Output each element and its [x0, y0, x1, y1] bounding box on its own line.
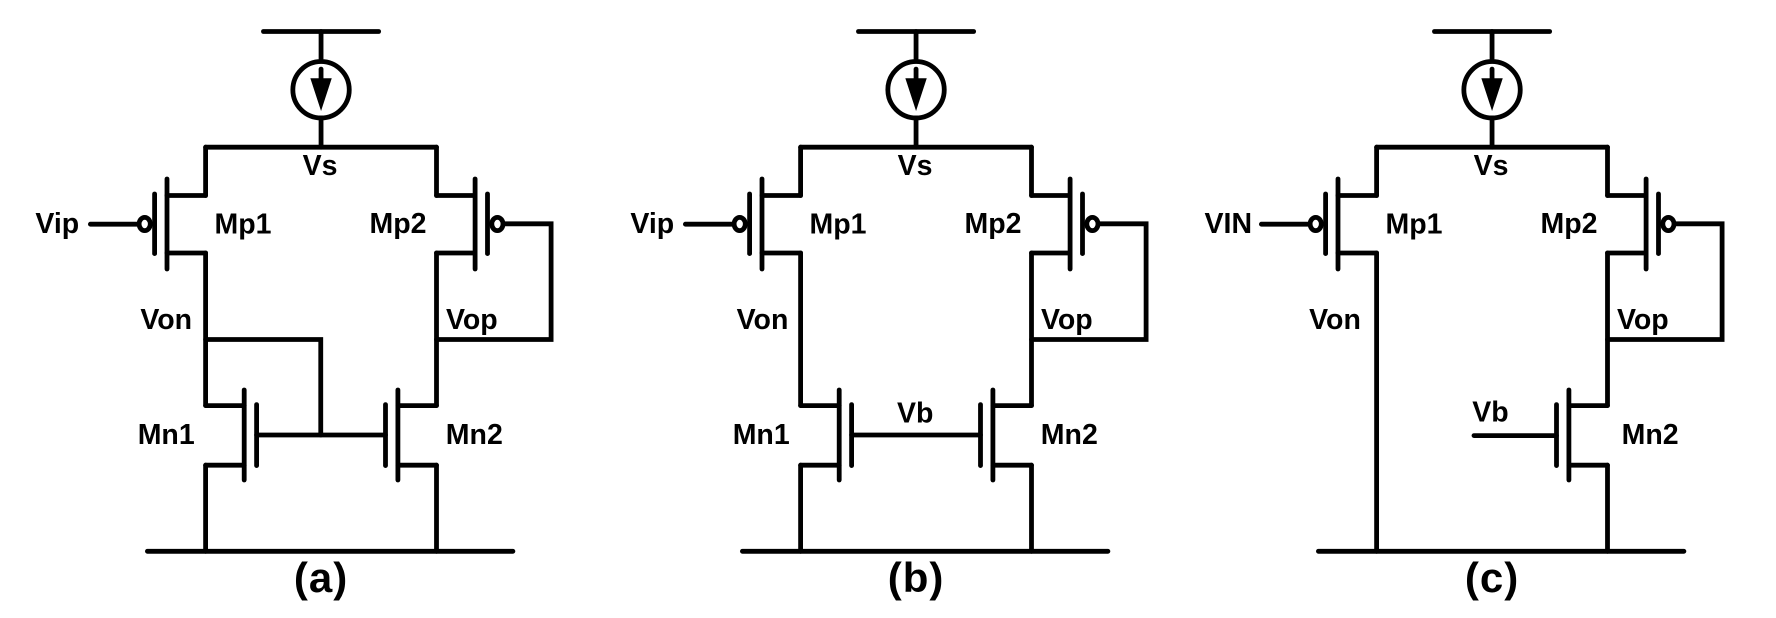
svg-text:Mp1: Mp1	[215, 208, 272, 240]
supply rail (top bar) circuit b	[858, 29, 973, 34]
wire bias input Vb to Mn2 gate	[1474, 433, 1557, 438]
wire input VIN to Mp1 gate bubble	[1261, 222, 1309, 227]
svg-text:Mp1: Mp1	[810, 208, 867, 240]
ground rail circuit b	[742, 549, 1108, 554]
current source Ib circuit a	[293, 61, 349, 117]
wire input Vip to Mp1 gate bubble	[90, 222, 138, 227]
current source Ib circuit b	[888, 61, 944, 117]
svg-text:Mn1: Mn1	[138, 419, 195, 451]
svg-text:Mn2: Mn2	[1622, 419, 1679, 451]
svg-text:Vip: Vip	[630, 208, 674, 240]
pmos Mp2	[1032, 179, 1099, 269]
svg-text:(a): (a)	[294, 554, 348, 601]
svg-text:Vop: Vop	[446, 304, 498, 336]
svg-text:Mp2: Mp2	[965, 208, 1022, 240]
wire Vs rail down to Mp2 source	[1605, 147, 1610, 195]
svg-text:Mn2: Mn2	[446, 419, 503, 451]
wire Mn2 source to ground rail	[1605, 465, 1610, 551]
svg-text:(b): (b)	[888, 554, 945, 601]
svg-text:Vs: Vs	[898, 150, 933, 182]
svg-text:Vs: Vs	[303, 150, 338, 182]
pmos Mp1	[734, 179, 800, 269]
wire Vs rail down to Mp2 source	[1029, 147, 1034, 195]
wire Von: Mp1 drain down to Mn1 drain	[798, 253, 803, 406]
wire Vs rail down to Mp1 source	[1374, 147, 1379, 195]
svg-text:(c): (c)	[1465, 554, 1519, 601]
wire current source to Vs node	[1490, 120, 1495, 148]
ground rail circuit c	[1318, 549, 1684, 554]
wire Von node tap to nmos gate bus	[206, 340, 321, 436]
node Vs (source rail)	[801, 145, 1032, 150]
nmos Mn1	[206, 390, 257, 480]
wire supply bar to current source	[319, 32, 324, 59]
svg-text:VIN: VIN	[1205, 208, 1253, 240]
svg-text:Von: Von	[737, 304, 789, 336]
wire Mn1 source to ground rail	[203, 465, 208, 551]
wire supply bar to current source	[1490, 32, 1495, 59]
wire Vs rail down to Mp1 source	[203, 147, 208, 195]
svg-text:Mp2: Mp2	[1541, 208, 1598, 240]
svg-text:Mp2: Mp2	[370, 208, 427, 240]
node Vs (source rail)	[1377, 145, 1608, 150]
wire Mp2 gate feedback to Vop	[1032, 224, 1147, 340]
svg-text:Vop: Vop	[1041, 304, 1093, 336]
wire supply bar to current source	[914, 32, 919, 59]
supply rail (top bar) circuit c	[1434, 29, 1549, 34]
wire Von: Mp1 drain down to ground rail	[1374, 253, 1379, 551]
wire Mp2 gate feedback to Vop	[437, 224, 552, 340]
nmos Mn2	[386, 390, 437, 480]
supply rail (top bar) circuit a	[263, 29, 378, 34]
pmos Mp1	[1310, 179, 1377, 269]
pmos Mp1	[139, 179, 206, 269]
node Vs (source rail)	[206, 145, 437, 150]
svg-text:Mn2: Mn2	[1041, 419, 1098, 451]
wire Vs rail down to Mp1 source	[798, 147, 803, 195]
nmos Mn2	[1557, 390, 1608, 480]
wire Mn1 source to ground rail	[798, 465, 803, 551]
svg-text:Vip: Vip	[35, 208, 79, 240]
svg-text:Mp1: Mp1	[1386, 208, 1443, 240]
svg-text:Vs: Vs	[1474, 150, 1509, 182]
wire nmos gate bus Mn1-Mn2	[257, 433, 386, 438]
wire Vop: Mp2 drain down to Mn2 drain	[1029, 253, 1034, 406]
nmos Mn2	[981, 390, 1032, 480]
wire Mn2 source to ground rail	[434, 465, 439, 551]
wire Von: Mp1 drain down to Mn1 drain	[203, 253, 208, 406]
wire current source to Vs node	[319, 120, 324, 148]
svg-text:Vb: Vb	[897, 397, 933, 429]
nmos Mn1	[801, 390, 852, 480]
wire Mp2 gate feedback to Vop	[1608, 224, 1723, 340]
ground rail circuit a	[147, 549, 513, 554]
wire current source to Vs node	[914, 120, 919, 148]
pmos Mp2	[1608, 179, 1675, 269]
wire Vop: Mp2 drain down to Mn2 drain	[1605, 253, 1610, 406]
svg-text:Von: Von	[140, 304, 192, 336]
wire Vop: Mp2 drain down to Mn2 drain	[434, 253, 439, 406]
current source Ib circuit c	[1464, 61, 1520, 117]
wire Vs rail down to Mp2 source	[434, 147, 439, 195]
wire input Vip to Mp1 gate bubble	[685, 222, 733, 227]
wire nmos gate bus Mn1-Mn2	[852, 433, 981, 438]
svg-text:Mn1: Mn1	[733, 419, 790, 451]
svg-text:Von: Von	[1309, 304, 1361, 336]
wire Mn2 source to ground rail	[1029, 465, 1034, 551]
pmos Mp2	[437, 179, 504, 269]
svg-text:Vb: Vb	[1472, 397, 1508, 429]
svg-text:Vop: Vop	[1617, 304, 1669, 336]
